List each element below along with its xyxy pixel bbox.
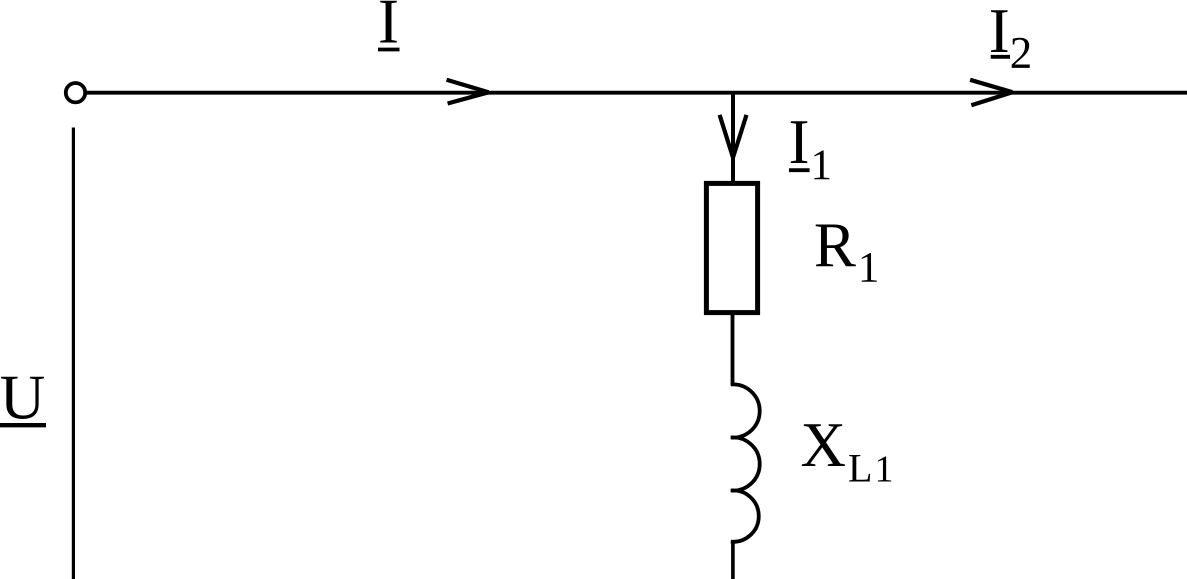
svg-text:U: U [0, 363, 45, 433]
wire: left vertical lead below terminal [72, 128, 75, 579]
label R1 [814, 211, 879, 292]
wire: top horizontal bus from terminal to right edge [87, 91, 1187, 95]
svg-text:1: 1 [875, 448, 894, 490]
wire: coil bottom lead to image bottom edge [731, 540, 735, 579]
wire: resistor bottom to coil top [731, 313, 735, 386]
label I2 (underlined I with subscript 2) [989, 0, 1032, 78]
svg-text:L: L [848, 445, 872, 490]
svg-text:X: X [800, 410, 846, 480]
resistor R1 (rectangle body) [706, 183, 757, 312]
svg-text:2: 2 [1010, 28, 1033, 78]
node: T-junction, vertical branch wire down to resistor [731, 93, 735, 183]
svg-text:I: I [789, 107, 810, 177]
svg-text:1: 1 [811, 142, 833, 189]
label U (underlined, source voltage) [0, 363, 46, 433]
svg-text:R: R [814, 211, 856, 281]
label I1 (underlined I with subscript 1) [789, 107, 833, 189]
inductor XL1 (3-bump coil) [731, 384, 760, 541]
svg-text:1: 1 [858, 244, 880, 291]
arrow: current I1 down the branch [720, 115, 747, 158]
label I (underlined) [378, 0, 400, 57]
label XL1 [800, 410, 893, 490]
arrow: current I on top wire [447, 80, 489, 104]
terminal circle (left input terminal) [66, 83, 85, 102]
arrow: current I2 on top wire right [970, 80, 1012, 105]
